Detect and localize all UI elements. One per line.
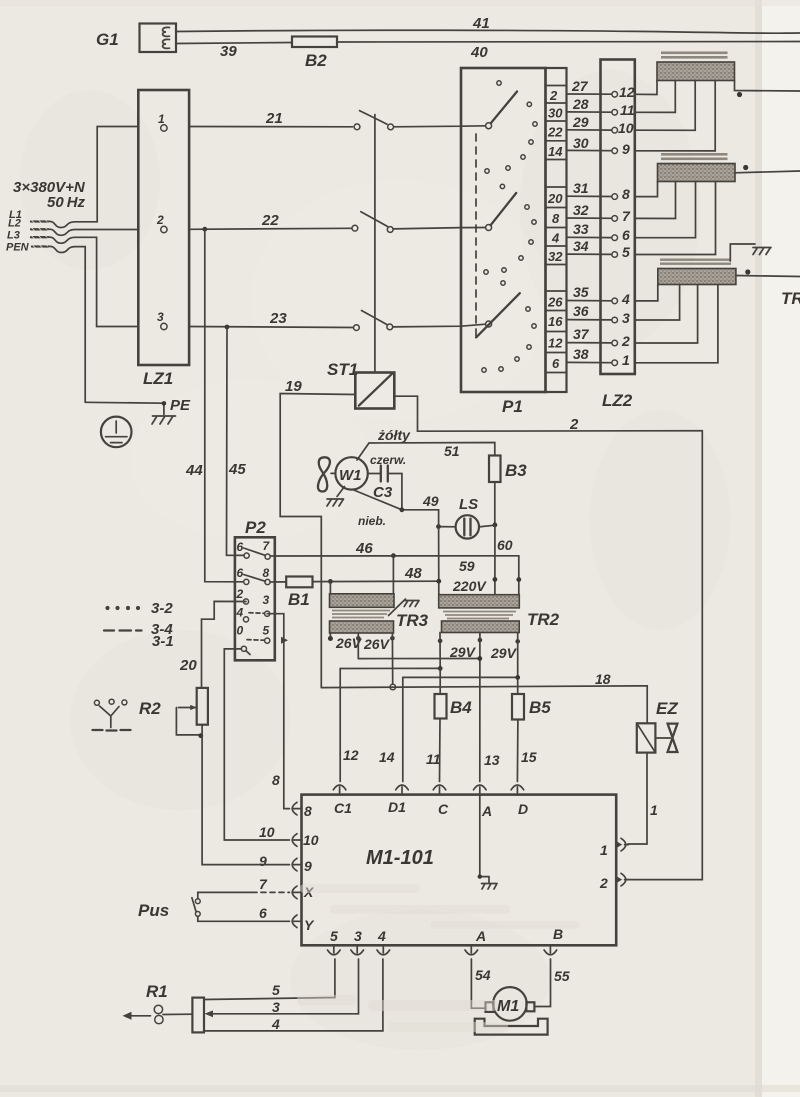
wire 4 (204, 959, 383, 1031)
svg-text:3-1: 3-1 (152, 633, 174, 650)
svg-text:8: 8 (304, 803, 312, 819)
internal ground of M1-101 (480, 795, 489, 883)
switch contact on wire 22 (352, 225, 358, 231)
TR1 winding a taps to LZ2 (635, 81, 715, 151)
transformer TR3 secondary (330, 621, 394, 633)
switch contact on wire 21 (354, 124, 360, 130)
svg-text:G1: G1 (96, 30, 119, 49)
svg-text:2: 2 (599, 875, 608, 891)
svg-text:6: 6 (237, 566, 244, 580)
svg-text:4: 4 (551, 231, 560, 246)
junction wire 45 (225, 325, 230, 330)
chassis ground under PE (152, 416, 176, 424)
svg-text:2: 2 (236, 587, 244, 601)
wire 7 (198, 892, 252, 899)
svg-text:B2: B2 (305, 51, 327, 70)
svg-text:12: 12 (343, 747, 359, 763)
svg-text:B4: B4 (450, 698, 472, 717)
svg-text:M1-101: M1-101 (366, 847, 434, 869)
svg-text:LS: LS (459, 496, 478, 513)
svg-text:4: 4 (377, 928, 386, 944)
wire 60 (494, 525, 496, 595)
TR3 tap right to wire 18 (390, 636, 395, 641)
fuse B2 (292, 37, 337, 48)
wire nieb. (353, 490, 402, 510)
svg-text:39: 39 (220, 43, 237, 60)
svg-text:2: 2 (621, 333, 630, 349)
svg-text:1: 1 (650, 802, 658, 818)
motor M1 cradle (475, 1019, 548, 1035)
svg-text:3: 3 (263, 593, 270, 607)
svg-text:D: D (518, 801, 528, 817)
wire 12 to C1 (340, 667, 440, 669)
svg-text:C1: C1 (334, 800, 352, 816)
svg-text:3-2: 3-2 (151, 600, 173, 617)
svg-text:A: A (475, 928, 486, 944)
transformer TR1 winding c (core bars) (660, 259, 731, 261)
TR2 tap 29V mid (478, 638, 483, 643)
svg-text:26: 26 (547, 295, 563, 310)
wire 2 (ST1 to pin 2) (394, 396, 702, 879)
earth symbol in circle (101, 417, 132, 448)
svg-text:9: 9 (622, 141, 630, 157)
TR1 winding b taps to LZ2 (635, 182, 716, 255)
wire 22 (189, 228, 352, 229)
R2 wiper (176, 708, 199, 735)
TR2 tap 29V left (438, 639, 443, 644)
svg-text:6: 6 (237, 540, 244, 554)
wire 21 (189, 126, 352, 128)
svg-text:44: 44 (185, 462, 203, 479)
wire 41 (176, 30, 800, 33)
wire net 26V/29V mid taps (358, 658, 480, 660)
svg-text:R1: R1 (146, 982, 168, 1001)
motor M1 (493, 987, 527, 1021)
svg-text:23: 23 (269, 310, 287, 327)
TR3 core (332, 611, 390, 618)
svg-text:D1: D1 (388, 799, 406, 815)
transformer TR1 winding c (658, 269, 736, 285)
svg-text:4: 4 (271, 1016, 280, 1032)
control unit M1-101 (302, 795, 617, 946)
svg-text:TR: TR (781, 289, 800, 308)
P1 switch arm 1 (486, 123, 492, 129)
svg-text:5: 5 (263, 624, 270, 638)
wire L3 to terminal 3 (48, 237, 138, 326)
svg-text:19: 19 (285, 378, 302, 395)
fan motor W1 (318, 457, 368, 506)
svg-text:2: 2 (549, 88, 558, 103)
svg-text:30: 30 (573, 135, 589, 151)
svg-text:10: 10 (303, 832, 319, 848)
svg-text:60: 60 (497, 537, 513, 553)
svg-text:B1: B1 (288, 590, 310, 609)
TR2 tap right (515, 639, 520, 644)
wire 49/59 down to TR2 (438, 525, 440, 595)
svg-text:7: 7 (622, 208, 631, 224)
svg-text:W1: W1 (339, 467, 362, 484)
fuse B4 (435, 694, 447, 719)
wire L1 to terminal 1 (48, 127, 138, 228)
rotary switch P1 (461, 68, 567, 416)
svg-text:10: 10 (618, 120, 634, 136)
svg-text:14: 14 (379, 749, 395, 765)
svg-text:59: 59 (459, 558, 475, 574)
TR3 tap 26V left (dead end) (329, 633, 331, 637)
LZ2 terminal numbers (618, 84, 635, 368)
svg-text:48: 48 (404, 565, 422, 582)
switch contact on wire 23 (354, 325, 360, 331)
svg-text:15: 15 (521, 749, 537, 765)
svg-text:29: 29 (572, 114, 589, 130)
wire 45 (227, 327, 245, 555)
svg-text:32: 32 (573, 202, 589, 218)
P1 switch arm 3 (486, 321, 492, 327)
svg-text:49: 49 (422, 493, 439, 509)
svg-text:11: 11 (426, 751, 441, 767)
svg-text:2: 2 (156, 213, 164, 227)
mechanical link to ST1 (374, 115, 376, 373)
svg-text:36: 36 (573, 303, 589, 319)
svg-text:35: 35 (573, 284, 589, 300)
fuse B3 (489, 456, 501, 483)
svg-text:R2: R2 (139, 699, 161, 718)
svg-text:8: 8 (622, 186, 630, 202)
wires P1 cells to LZ2 terminals with labels 27-38 (567, 94, 613, 363)
transformer TR1 winding b (658, 164, 736, 182)
svg-text:18: 18 (595, 671, 611, 687)
svg-text:6: 6 (552, 356, 560, 371)
svg-text:5: 5 (622, 244, 630, 260)
svg-text:20: 20 (179, 657, 197, 674)
svg-text:34: 34 (573, 238, 589, 254)
TR2 core (443, 612, 516, 619)
svg-text:26V: 26V (363, 636, 391, 652)
svg-text:14: 14 (548, 144, 563, 159)
svg-text:A: A (481, 803, 492, 819)
svg-text:10: 10 (259, 824, 275, 840)
wire 23 (189, 327, 353, 328)
wire 20 (202, 601, 247, 688)
svg-text:54: 54 (475, 967, 491, 983)
svg-text:TR2: TR2 (527, 610, 560, 629)
svg-text:P2: P2 (245, 518, 266, 537)
TR1 winding c output wire (736, 276, 800, 277)
wire 19 (280, 394, 355, 688)
wire 3 (211, 959, 359, 1014)
transformer TR1 winding a (core bars) (661, 52, 728, 55)
TR1 winding c taps to LZ2 (635, 285, 718, 363)
terminal block LZ1 (138, 90, 189, 365)
svg-text:8: 8 (552, 211, 560, 226)
node 49 (400, 507, 405, 512)
svg-text:1: 1 (158, 112, 165, 126)
fuse B1 (270, 581, 286, 583)
svg-text:Pus: Pus (138, 901, 169, 920)
svg-text:3: 3 (622, 310, 630, 326)
chassis under W1 (337, 487, 345, 497)
TR1 winding b output wire (735, 171, 800, 173)
terminal strip LZ2 (601, 60, 635, 375)
wire 18 (321, 686, 647, 724)
svg-text:TR3: TR3 (396, 611, 429, 630)
svg-text:29V: 29V (449, 644, 477, 660)
faint bleedthrough marks (297, 884, 580, 1032)
wire 6 (198, 916, 290, 921)
svg-text:3: 3 (354, 928, 362, 944)
P1 switch arm 2 (486, 225, 492, 231)
svg-text:3: 3 (272, 999, 280, 1015)
svg-text:6: 6 (259, 905, 267, 921)
wire 44 (205, 229, 244, 582)
svg-text:C: C (438, 801, 449, 817)
svg-text:20: 20 (547, 191, 563, 206)
P1 cell dividers and numbers (546, 86, 567, 373)
svg-text:1: 1 (622, 352, 630, 368)
transformer TR2 primary (439, 595, 520, 608)
svg-text:30: 30 (548, 106, 563, 121)
svg-text:220V: 220V (452, 578, 487, 594)
transformer TR1 winding b (core bars) (661, 153, 728, 156)
legend selector symbol R2 (93, 699, 162, 731)
LZ2 terminal circles (612, 92, 618, 366)
TR1 winding a output wire (735, 81, 800, 92)
legend dotted 3-2 (105, 606, 140, 610)
wire PEN down (49, 246, 86, 402)
svg-text:P1: P1 (502, 397, 523, 416)
transformer TR2 secondary (442, 621, 520, 633)
svg-text:50 Hz: 50 Hz (47, 194, 86, 211)
potentiometer R2 (197, 688, 208, 725)
svg-text:6: 6 (622, 227, 630, 243)
svg-text:29V: 29V (490, 645, 518, 661)
svg-text:4: 4 (621, 291, 630, 307)
P1 fixed contacts (482, 81, 537, 372)
paper mottling (20, 70, 730, 1050)
wire 40 (337, 40, 800, 43)
svg-text:32: 32 (548, 249, 563, 264)
svg-text:EZ: EZ (656, 699, 678, 718)
svg-text:12: 12 (619, 84, 635, 100)
svg-text:ST1: ST1 (327, 360, 358, 379)
fuse B5 (512, 694, 524, 720)
wire 9 (202, 725, 289, 865)
svg-text:8: 8 (263, 566, 270, 580)
svg-text:L3: L3 (7, 230, 20, 242)
svg-text:40: 40 (470, 44, 488, 61)
fan blades (318, 457, 330, 491)
transformer TR3 primary (330, 556, 393, 594)
svg-text:2: 2 (569, 416, 579, 433)
svg-text:8: 8 (272, 772, 280, 788)
svg-text:PE: PE (170, 397, 191, 414)
svg-text:9: 9 (259, 853, 267, 869)
svg-text:37: 37 (573, 326, 590, 342)
junction wire 44 (202, 227, 207, 232)
svg-text:12: 12 (548, 336, 563, 351)
wire 1 (628, 753, 647, 844)
legend dashed 3-4 / 3-1 (104, 629, 142, 631)
connector G1 (96, 24, 176, 53)
svg-text:22: 22 (547, 125, 563, 140)
chassis on TR1 winding c screen (730, 244, 755, 261)
svg-text:5: 5 (330, 928, 338, 944)
svg-text:27: 27 (571, 78, 589, 94)
wire PE (85, 402, 164, 414)
svg-text:38: 38 (573, 346, 589, 362)
svg-text:LZ1: LZ1 (143, 369, 173, 388)
svg-text:LZ2: LZ2 (602, 391, 633, 410)
wire 8 (267, 614, 289, 809)
P2 wiper contact (241, 646, 246, 651)
transformer TR1 winding a (657, 62, 735, 81)
svg-text:51: 51 (444, 443, 460, 459)
svg-text:0: 0 (237, 624, 244, 638)
svg-text:11: 11 (620, 102, 635, 118)
wire 55 (535, 959, 551, 1007)
svg-text:16: 16 (548, 314, 563, 329)
svg-text:7: 7 (259, 876, 268, 892)
svg-text:żółty: żółty (377, 427, 411, 443)
wire L2 to terminal 2 (48, 229, 138, 235)
svg-text:L2: L2 (8, 218, 21, 230)
wire 48 (313, 580, 439, 582)
svg-text:5: 5 (272, 982, 280, 998)
TR3 core chassis (389, 599, 406, 616)
svg-text:41: 41 (472, 15, 490, 32)
svg-text:13: 13 (484, 752, 500, 768)
svg-text:M1: M1 (497, 998, 519, 1015)
svg-text:9: 9 (304, 858, 312, 874)
svg-text:B3: B3 (505, 461, 527, 480)
svg-text:33: 33 (573, 221, 589, 237)
svg-text:3: 3 (157, 310, 164, 324)
wire 14 to D1 (403, 676, 518, 678)
wire 39 (176, 43, 292, 44)
svg-text:28: 28 (572, 96, 589, 112)
svg-text:46: 46 (355, 540, 373, 557)
svg-text:22: 22 (261, 212, 279, 229)
svg-text:1: 1 (600, 842, 608, 858)
wire 5 (204, 959, 335, 1000)
svg-text:31: 31 (573, 180, 589, 196)
TR3 tap 26V mid (356, 636, 361, 641)
svg-text:45: 45 (228, 461, 246, 478)
svg-text:4: 4 (236, 606, 244, 620)
svg-text:nieb.: nieb. (358, 514, 386, 528)
wire 10 (224, 649, 289, 840)
svg-text:PEN: PEN (6, 242, 30, 254)
svg-text:21: 21 (265, 110, 283, 127)
wire 46 (270, 556, 519, 595)
wire 51 (zolty) (357, 443, 495, 461)
svg-text:B5: B5 (529, 698, 551, 717)
svg-text:55: 55 (554, 968, 570, 984)
wire 54 (471, 959, 485, 1008)
